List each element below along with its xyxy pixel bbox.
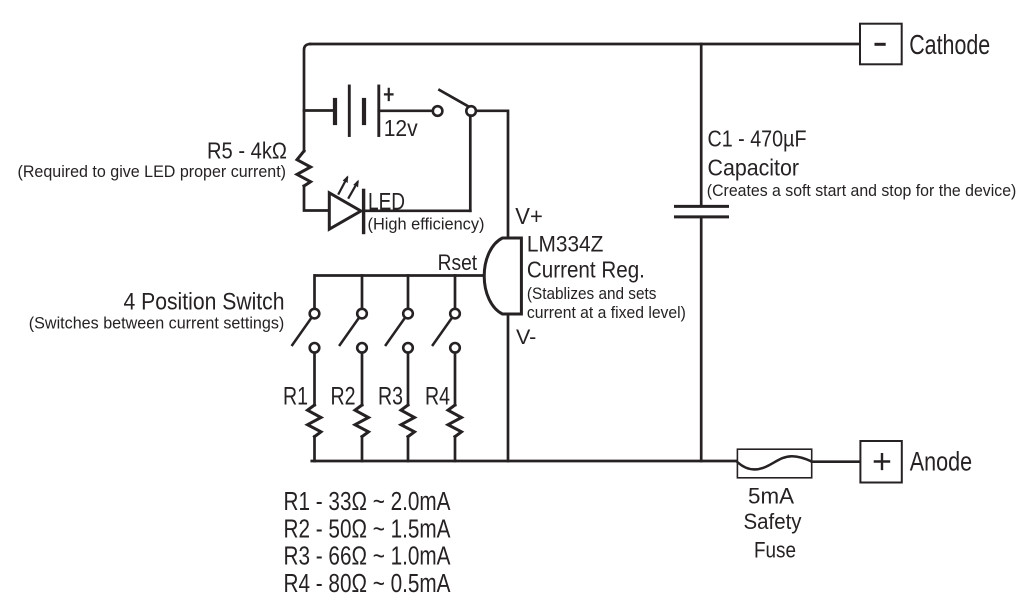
svg-text:C1 - 470µF: C1 - 470µF <box>708 126 807 152</box>
wire throw 3 to R3 <box>407 353 410 405</box>
svg-text:R4 - 80Ω ~ 0.5mA: R4 - 80Ω ~ 0.5mA <box>284 570 451 598</box>
battery B1 plates <box>333 100 337 123</box>
4-position switch throw 3 <box>403 343 413 353</box>
4-position switch lever 1 <box>292 319 310 345</box>
resistor R5 <box>297 151 311 186</box>
wire switch stub 2 <box>361 276 364 309</box>
anode plus sign <box>875 454 889 469</box>
LED D1 triangle <box>329 193 361 229</box>
anode terminal box <box>860 441 901 483</box>
wire fuse to anode box <box>812 460 861 463</box>
svg-text:LED: LED <box>368 189 405 216</box>
svg-text:Capacitor: Capacitor <box>708 155 800 181</box>
svg-text:(Creates a soft start and stop: (Creates a soft start and stop for the d… <box>707 182 1017 200</box>
LED arrow 1 <box>339 178 347 194</box>
svg-text:Cathode: Cathode <box>909 29 990 60</box>
svg-text:Safety: Safety <box>744 509 802 534</box>
LM334Z current regulator U1 body <box>484 238 521 314</box>
svg-text:(Required to give LED proper c: (Required to give LED proper current) <box>18 163 287 181</box>
4-position switch pole 4 <box>450 309 460 319</box>
fuse F1 body <box>737 449 811 478</box>
svg-text:4 Position Switch: 4 Position Switch <box>124 289 285 316</box>
battery plus sign <box>385 89 393 100</box>
svg-text:V+: V+ <box>515 203 543 229</box>
wire capacitor top branch <box>700 44 703 205</box>
switch S1 lever <box>440 90 468 106</box>
4-position switch pole 1 <box>310 309 320 319</box>
4-position switch pole 3 <box>403 309 413 319</box>
capacitor C1 plates <box>676 205 728 208</box>
svg-text:R2 - 50Ω ~ 1.5mA: R2 - 50Ω ~ 1.5mA <box>284 515 451 543</box>
svg-text:(Switches between current sett: (Switches between current settings) <box>29 314 284 332</box>
wire R3 to bottom bus <box>407 437 410 461</box>
wire switch stub 4 <box>454 276 457 309</box>
fuse F1 wave element <box>737 456 811 469</box>
wire R1 to bottom bus <box>313 437 316 461</box>
svg-text:R5 - 4kΩ: R5 - 4kΩ <box>207 138 287 164</box>
4-position switch lever 3 <box>386 319 404 345</box>
svg-text:Rset: Rset <box>438 250 478 275</box>
LED arrow 2 <box>349 182 358 197</box>
svg-text:R2: R2 <box>331 382 356 410</box>
wire switch stub 3 <box>407 276 410 309</box>
resistor R4 <box>448 405 462 437</box>
wire throw 1 to R1 <box>313 353 316 405</box>
wire capacitor bottom branch <box>700 219 703 462</box>
svg-text:LM334Z: LM334Z <box>527 232 604 257</box>
resistor R1 <box>308 405 322 437</box>
4-position switch throw 1 <box>310 343 320 353</box>
wire throw 2 to R2 <box>361 353 364 405</box>
wire left vertical from top bus to R5 <box>304 44 310 151</box>
svg-text:current at a fixed level): current at a fixed level) <box>527 304 686 322</box>
svg-text:5mA: 5mA <box>748 483 794 508</box>
wire R4 to bottom bus <box>454 437 457 461</box>
LED D1 cathode bar <box>362 190 365 232</box>
svg-text:R3 - 66Ω ~ 1.0mA: R3 - 66Ω ~ 1.0mA <box>284 542 451 570</box>
4-position switch throw 2 <box>357 343 367 353</box>
battery wire left <box>304 109 335 112</box>
wire switch to LM334 V+ <box>476 111 508 237</box>
4-position switch throw 4 <box>450 343 460 353</box>
svg-text:R4: R4 <box>425 382 450 410</box>
4-position switch lever 2 <box>340 319 358 345</box>
wire R2 to bottom bus <box>361 437 364 461</box>
4-position switch pole 2 <box>357 309 367 319</box>
wire switch stub 1 <box>313 276 316 309</box>
wire switch throw down to LED cathode wire <box>469 116 472 211</box>
wire bottom bus <box>312 460 737 463</box>
svg-text:R3: R3 <box>378 382 403 410</box>
wire R5 to LED anode <box>304 186 328 211</box>
svg-text:R1 - 33Ω ~ 2.0mA: R1 - 33Ω ~ 2.0mA <box>284 488 451 516</box>
wire LED cathode to switch junction <box>364 209 471 212</box>
resistor R3 <box>401 405 415 437</box>
wire Rset bus horizontal <box>315 274 484 277</box>
4-position switch lever 4 <box>433 319 451 345</box>
svg-text:(High efficiency): (High efficiency) <box>368 215 485 233</box>
cathode terminal box <box>860 24 902 65</box>
svg-text:(Stablizes and sets: (Stablizes and sets <box>527 285 657 303</box>
resistor R2 <box>355 405 369 437</box>
svg-text:Current Reg.: Current Reg. <box>527 257 645 283</box>
svg-text:12v: 12v <box>384 115 418 141</box>
svg-text:R1: R1 <box>283 382 308 410</box>
wire throw 4 to R4 <box>454 353 457 405</box>
svg-text:V-: V- <box>516 325 536 349</box>
cathode minus sign <box>876 43 884 46</box>
wire LM334 V- to bottom bus <box>507 314 510 461</box>
svg-text:Anode: Anode <box>910 447 972 477</box>
switch S1 pole contact <box>433 106 443 116</box>
wire battery to switch pole <box>379 109 434 112</box>
svg-text:Fuse: Fuse <box>754 537 796 562</box>
wire top bus <box>310 43 860 46</box>
switch S1 throw contact <box>466 106 476 116</box>
